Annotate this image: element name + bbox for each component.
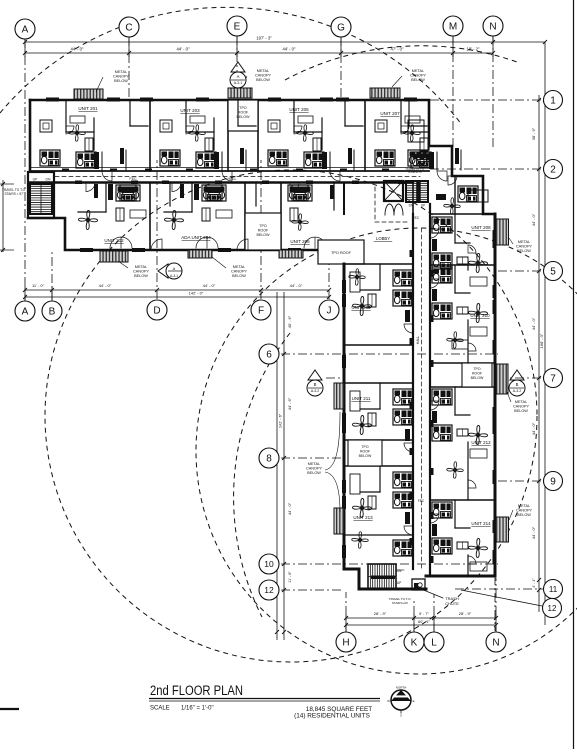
grid line 7 <box>498 377 543 379</box>
svg-text:CANOPY: CANOPY <box>133 270 150 274</box>
svg-text:NORTH: NORTH <box>396 686 407 690</box>
svg-text:UNIT 205: UNIT 205 <box>289 107 309 112</box>
svg-text:FEC: FEC <box>129 177 137 181</box>
svg-text:L: L <box>431 638 437 649</box>
svg-text:BELOW: BELOW <box>307 471 321 475</box>
unit 214 interior <box>432 502 452 518</box>
svg-text:10: 10 <box>264 559 274 569</box>
grid bubble H <box>336 632 356 652</box>
TPO roof box lobby <box>318 240 364 264</box>
metal canopy bottom 1 <box>100 251 128 262</box>
bottom stair block <box>368 564 396 589</box>
svg-text:W: W <box>387 699 390 703</box>
svg-text:CANOPY: CANOPY <box>255 74 272 78</box>
svg-text:A-3.1: A-3.1 <box>234 81 243 85</box>
unit 207 interior <box>400 100 402 132</box>
svg-text:METAL: METAL <box>115 70 127 74</box>
svg-text:197' - 3": 197' - 3" <box>256 36 272 41</box>
right chain dimension line <box>538 95 540 612</box>
grid bubble C <box>119 17 139 37</box>
grid bubble 11 <box>544 580 563 599</box>
svg-text:11' - 6": 11' - 6" <box>288 571 292 583</box>
svg-text:METAL: METAL <box>308 462 320 466</box>
svg-text:UNIT 213: UNIT 213 <box>353 515 373 520</box>
svg-text:CANOPY: CANOPY <box>516 245 533 249</box>
svg-text:142' - 0": 142' - 0" <box>189 291 204 296</box>
svg-text:CANOPY: CANOPY <box>513 405 530 409</box>
grid bubble N <box>486 632 506 652</box>
grid bubble M <box>443 16 463 36</box>
grid line N <box>492 36 494 150</box>
wing corridor jambs <box>410 250 414 257</box>
grid bubble 9 <box>544 472 563 491</box>
grid bubble F <box>251 300 271 320</box>
svg-text:CANOPY: CANOPY <box>306 467 323 471</box>
top wall windows <box>46 98 59 102</box>
svg-text:CANOPY: CANOPY <box>113 75 130 79</box>
grid line J <box>328 253 330 299</box>
svg-text:C: C <box>125 23 132 34</box>
svg-text:A-3.2: A-3.2 <box>311 389 320 393</box>
svg-text:ROOF: ROOF <box>472 371 482 375</box>
svg-text:9: 9 <box>550 477 556 488</box>
wing right unit dividers <box>430 264 495 266</box>
grid line 2 <box>430 168 543 170</box>
svg-text:BELOW: BELOW <box>517 513 531 517</box>
svg-text:CANOPY: CANOPY <box>410 74 427 78</box>
grid line G <box>340 37 342 100</box>
svg-text:8: 8 <box>266 454 272 465</box>
svg-text:44' - 0": 44' - 0" <box>99 283 112 288</box>
svg-text:D: D <box>153 306 160 317</box>
grid line C <box>128 37 130 100</box>
svg-text:40' - 6": 40' - 6" <box>287 315 292 328</box>
grid line E <box>236 36 238 100</box>
unit 211 interior <box>393 389 413 405</box>
grid bubble 6 <box>259 344 279 364</box>
svg-text:44' - 0": 44' - 0" <box>290 283 303 288</box>
svg-text:28' - 9": 28' - 9" <box>374 611 387 616</box>
svg-text:N: N <box>492 638 499 649</box>
metal canopy top 3 <box>370 88 400 98</box>
grid bubble A <box>15 301 35 321</box>
svg-text:TPO: TPO <box>259 224 267 228</box>
svg-text:A: A <box>22 307 29 318</box>
svg-text:TPO ROOF: TPO ROOF <box>331 251 352 255</box>
svg-text:METAL: METAL <box>135 265 147 269</box>
sheet right border <box>573 0 575 749</box>
svg-text:STAIRS+94': STAIRS+94' <box>392 601 409 605</box>
svg-text:BELOW: BELOW <box>514 409 528 413</box>
unit 203 interior <box>185 100 187 132</box>
svg-text:TPO: TPO <box>473 367 480 371</box>
TPO roof box top row <box>228 100 258 131</box>
svg-text:9' - 7": 9' - 7" <box>419 612 429 616</box>
svg-text:5: 5 <box>550 267 556 278</box>
metal canopy right 3 <box>496 517 509 542</box>
svg-text:J: J <box>327 306 332 317</box>
unit 208 interior <box>432 217 452 233</box>
svg-text:142' - 6": 142' - 6" <box>278 413 283 428</box>
grid line 12 leader <box>461 590 542 606</box>
svg-text:44' - 6": 44' - 6" <box>287 397 292 410</box>
lobby dashed boundary <box>374 187 376 222</box>
grid line D <box>156 160 158 299</box>
svg-text:B: B <box>314 382 317 387</box>
unit 209 interior <box>393 270 413 286</box>
grid bubble G <box>331 17 351 37</box>
TPO box wing right <box>462 363 492 387</box>
svg-text:UNIT 202: UNIT 202 <box>104 238 124 243</box>
svg-text:METAL: METAL <box>233 265 245 269</box>
unit 202 interior <box>116 185 136 201</box>
svg-text:N: N <box>489 22 496 33</box>
grid line 11 <box>455 588 543 590</box>
svg-text:UP: UP <box>33 178 38 182</box>
left stair block <box>28 172 54 218</box>
svg-text:UNIT 209: UNIT 209 <box>351 305 371 310</box>
svg-text:M: M <box>449 22 457 33</box>
svg-text:B: B <box>516 382 519 387</box>
north arrow <box>387 686 414 718</box>
grid bubble J <box>319 300 339 320</box>
grid bubble 8 <box>259 448 279 468</box>
svg-text:28' - 9": 28' - 9" <box>459 611 472 616</box>
svg-text:1/16" = 1'-0": 1/16" = 1'-0" <box>181 706 214 712</box>
grid line H <box>345 592 347 632</box>
svg-text:44' - 0": 44' - 0" <box>203 283 216 288</box>
svg-text:K: K <box>411 638 418 649</box>
metal canopy wing-left 2 <box>334 508 344 534</box>
right overall dimension line 168-0 <box>544 42 546 625</box>
unit 205 interior <box>293 100 295 132</box>
wing overall dimension line 142-6 <box>276 292 278 640</box>
svg-text:TPO: TPO <box>239 106 247 110</box>
svg-text:44' - 0": 44' - 0" <box>531 317 536 330</box>
svg-text:44' - 0": 44' - 0" <box>531 526 536 539</box>
wing chain dimension line <box>283 292 285 640</box>
top chain dimension line <box>25 52 493 54</box>
corridor walls <box>30 170 429 172</box>
svg-text:STAIRS+76': STAIRS+76' <box>408 170 423 174</box>
svg-text:TPO: TPO <box>361 445 368 449</box>
grid line 9 <box>498 480 543 482</box>
grid line K <box>413 600 415 632</box>
svg-text:11' - 0": 11' - 0" <box>32 283 45 288</box>
TPO box wing left <box>348 440 382 466</box>
svg-text:44' - 0": 44' - 0" <box>287 502 292 515</box>
svg-text:1: 1 <box>550 96 556 107</box>
section marker A/A-3.1 bottom <box>158 263 182 279</box>
dashed radius circle C3 <box>196 228 577 674</box>
svg-text:E: E <box>413 699 415 703</box>
svg-text:BELOW: BELOW <box>232 274 246 278</box>
section marker B/A-3.2 right <box>509 370 525 396</box>
grid bubble 12 <box>543 599 562 618</box>
svg-text:METAL: METAL <box>518 240 530 244</box>
unit 210 interior <box>432 267 452 283</box>
svg-text:BELOW: BELOW <box>471 376 484 380</box>
trash chute box <box>412 579 425 590</box>
grid bubble B <box>42 301 62 321</box>
svg-text:A: A <box>237 74 240 79</box>
wing corridor walls <box>412 214 414 569</box>
grid bubble A <box>15 19 35 39</box>
wing left wall windows <box>342 280 346 293</box>
grid bubble 12 <box>259 580 279 600</box>
svg-text:UNIT 211: UNIT 211 <box>352 396 371 401</box>
section marker B/A-3.2 left <box>307 370 323 396</box>
svg-text:METAL: METAL <box>518 504 530 508</box>
svg-text:UNIT 201: UNIT 201 <box>78 106 98 111</box>
metal canopy right 2 <box>496 364 508 394</box>
svg-text:BELOW: BELOW <box>134 274 148 278</box>
svg-text:UNIT 208: UNIT 208 <box>471 225 491 230</box>
grid line 1 <box>430 99 543 101</box>
lower overall dimension line 142-0 <box>25 296 329 298</box>
grid line 5 <box>498 270 543 272</box>
svg-text:UNIT 212: UNIT 212 <box>471 440 491 445</box>
svg-text:CANOPY: CANOPY <box>231 270 248 274</box>
svg-text:12: 12 <box>548 604 557 613</box>
metal canopy top 1 <box>74 89 103 99</box>
svg-text:SCALE: SCALE <box>150 706 170 712</box>
metal canopy wing-left 1 <box>334 383 344 409</box>
grid bubble 7 <box>544 369 563 388</box>
svg-text:(14) RESIDENTIAL UNITS: (14) RESIDENTIAL UNITS <box>294 713 370 720</box>
svg-text:ROOF: ROOF <box>258 229 269 233</box>
svg-text:DN: DN <box>46 178 51 182</box>
elevator shaft <box>384 181 403 201</box>
svg-text:18' - 2": 18' - 2" <box>467 47 481 52</box>
svg-text:4' - 1": 4' - 1" <box>532 578 536 588</box>
svg-text:BELOW: BELOW <box>257 233 271 237</box>
top overall dimension line 197-3 <box>25 41 545 43</box>
svg-text:ROOF: ROOF <box>238 111 249 115</box>
wing left column outline <box>344 264 426 589</box>
svg-text:S: S <box>400 714 402 718</box>
grid line F <box>260 160 262 299</box>
unit 206 interior <box>288 185 308 201</box>
svg-text:BELOW: BELOW <box>114 79 128 83</box>
grid line B <box>51 252 53 300</box>
unit 213 interior <box>393 472 413 488</box>
elevator doors <box>385 204 403 215</box>
grid line L <box>433 594 435 632</box>
svg-text:F: F <box>258 306 264 317</box>
grid bubble K <box>404 632 424 652</box>
grid line N btm <box>495 578 497 632</box>
bottom chain dims 28-9 / 9-7 / 28-9 <box>346 617 496 619</box>
corridor jambs <box>62 169 69 172</box>
svg-text:UNIT 207: UNIT 207 <box>380 111 400 116</box>
svg-text:UP: UP <box>397 581 402 585</box>
ada unit 204 interior <box>202 185 222 201</box>
svg-text:CANOPY: CANOPY <box>516 509 533 513</box>
svg-text:38' - 9": 38' - 9" <box>531 127 536 140</box>
unit divider walls bottom row <box>149 183 151 251</box>
grid line 8 <box>281 457 344 459</box>
svg-text:UP: UP <box>421 204 426 208</box>
svg-text:B: B <box>49 307 56 318</box>
svg-text:UNIT 210: UNIT 210 <box>470 313 490 318</box>
grid bubble 1 <box>544 91 563 110</box>
svg-text:44' - 0": 44' - 0" <box>283 47 297 52</box>
dashed radius circle C2 <box>45 170 537 662</box>
svg-text:6: 6 <box>266 350 272 361</box>
grid line 6 <box>281 353 498 355</box>
unit 201 interior <box>65 100 67 132</box>
grid bubble D <box>147 300 167 320</box>
svg-text:47' - 0": 47' - 0" <box>391 47 405 52</box>
svg-text:2: 2 <box>550 165 556 176</box>
svg-text:METAL: METAL <box>257 69 269 73</box>
grid bubble E <box>227 16 247 36</box>
svg-text:DN: DN <box>397 569 402 573</box>
wing left unit dividers <box>344 263 413 265</box>
svg-text:44' - 0": 44' - 0" <box>177 47 191 52</box>
svg-text:METAL: METAL <box>412 69 424 73</box>
svg-text:2nd FLOOR PLAN: 2nd FLOOR PLAN <box>150 683 243 698</box>
svg-text:UNIT 214: UNIT 214 <box>471 521 491 526</box>
svg-text:HALL: HALL <box>416 336 420 345</box>
svg-text:BELOW: BELOW <box>256 78 270 82</box>
svg-text:FEC: FEC <box>418 499 425 503</box>
svg-text:44' - 0": 44' - 0" <box>531 422 536 435</box>
svg-text:44' - 0": 44' - 0" <box>71 47 85 52</box>
top wing exterior walls <box>30 100 495 214</box>
metal canopy right 1 <box>496 219 509 245</box>
grid line 10 <box>281 563 498 565</box>
svg-text:A-3.2: A-3.2 <box>513 389 522 393</box>
grid bubble 10 <box>259 554 279 574</box>
far-left stair travel dim <box>2 180 4 252</box>
svg-text:E: E <box>234 22 241 33</box>
wing right wall windows <box>493 230 497 244</box>
svg-text:7: 7 <box>550 374 556 385</box>
svg-text:12: 12 <box>264 585 274 595</box>
svg-text:A: A <box>22 25 29 36</box>
svg-text:ADA UNIT 204: ADA UNIT 204 <box>181 235 211 240</box>
unit 212 interior <box>432 389 452 405</box>
junction right rooms <box>454 176 456 214</box>
metal canopy bottom 3 <box>279 250 303 258</box>
grid bubble 5 <box>544 262 563 281</box>
metal canopy top 2 <box>228 88 252 98</box>
grid bubble L <box>424 632 444 652</box>
svg-text:11: 11 <box>549 585 558 594</box>
lower chain dimension line 11-44-44-44 <box>25 289 329 291</box>
svg-text:BELOW: BELOW <box>411 78 425 82</box>
bottom overall dim 60-1 <box>346 624 496 626</box>
metal canopy bottom 2 <box>188 250 212 258</box>
svg-text:STAIRS = 97': STAIRS = 97' <box>4 192 23 196</box>
bottom wall windows <box>80 248 93 252</box>
junction stair <box>406 181 428 202</box>
svg-text:ROOF: ROOF <box>360 449 370 453</box>
svg-text:A: A <box>173 266 176 271</box>
svg-text:H: H <box>342 638 349 649</box>
grid line M <box>452 36 454 148</box>
svg-text:168' - 0": 168' - 0" <box>539 333 544 348</box>
svg-text:A-3.1: A-3.1 <box>170 274 178 278</box>
svg-text:METAL: METAL <box>515 400 527 404</box>
dashed radius arc C4 top-right <box>285 46 517 80</box>
svg-text:UNIT 206: UNIT 206 <box>290 239 310 244</box>
TPO roof box bottom row <box>245 213 281 250</box>
grid line 12L <box>281 589 344 591</box>
unit divider walls top row <box>149 100 151 171</box>
svg-text:G: G <box>337 23 345 34</box>
svg-text:44' - 0": 44' - 0" <box>531 213 536 226</box>
dashed radius arc C5 <box>234 333 290 617</box>
grid bubble 2 <box>544 160 563 179</box>
svg-text:60' - 1": 60' - 1" <box>418 620 430 624</box>
svg-text:UNIT 203: UNIT 203 <box>180 108 200 113</box>
svg-text:CHUTE: CHUTE <box>445 601 459 606</box>
dashed radius arc C1 top-left <box>0 7 462 125</box>
svg-text:BELOW: BELOW <box>359 454 372 458</box>
svg-text:LOBBY: LOBBY <box>376 236 390 241</box>
section marker A/A-3.1 top <box>230 62 246 88</box>
grid bubble N <box>483 16 503 36</box>
grid line A <box>24 39 26 300</box>
svg-text:BELOW: BELOW <box>517 249 531 253</box>
